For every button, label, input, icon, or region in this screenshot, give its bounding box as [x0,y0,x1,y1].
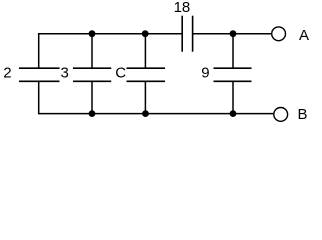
svg-text:C: C [115,64,126,81]
svg-text:9: 9 [201,65,209,82]
svg-text:3: 3 [61,64,69,81]
svg-text:B: B [298,106,308,123]
svg-text:2: 2 [3,64,11,81]
svg-text:A: A [299,27,309,44]
svg-text:18: 18 [174,0,191,16]
